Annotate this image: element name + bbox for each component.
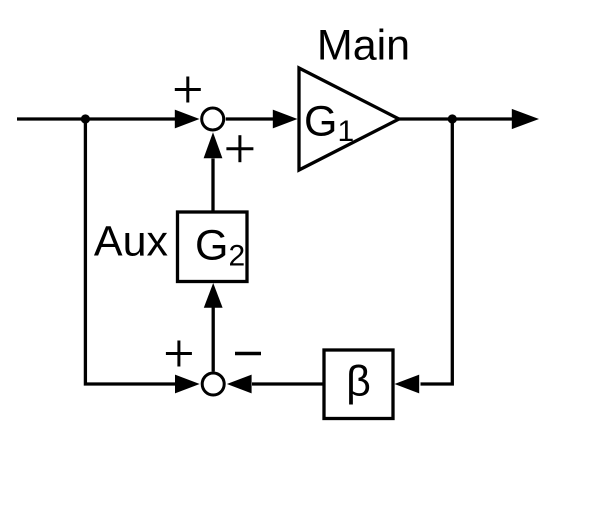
svg-text:Main: Main	[317, 22, 410, 70]
block beta (feedback network)	[324, 350, 393, 419]
wire: feedback tap down from output node to beta block	[421, 119, 453, 384]
node: input junction dot	[81, 114, 90, 123]
minus sign: feedback polarity at S2 (above-right)	[235, 352, 261, 355]
block G2 (auxiliary amplifier)	[178, 212, 248, 282]
arrowhead into S2 from left	[175, 375, 200, 394]
wire: input segment from left edge to summing junction S1	[17, 117, 177, 120]
wire: S2 up to auxiliary amplifier G2	[212, 308, 215, 372]
arrowhead at output	[512, 109, 539, 129]
wire: G2 output up to summing junction S1	[211, 159, 214, 213]
plus sign: input polarity at S2 (above-left)	[166, 341, 192, 367]
wire: left feed-forward path down to S2	[85, 119, 175, 384]
op-amp U1 (main amplifier G1 triangle)	[299, 68, 399, 170]
plus sign: G2 polarity at S1 (below-right)	[226, 135, 253, 162]
arrowhead into S1 from below	[204, 132, 223, 158]
summing junction S2	[202, 373, 224, 395]
plus sign: input polarity at S1 (above-left)	[175, 77, 201, 103]
arrowhead into summing junction S1 (from input)	[175, 110, 200, 129]
wire: G1 output to right edge	[399, 117, 513, 120]
arrowhead into G2 bottom	[204, 283, 223, 308]
svg-text:β: β	[346, 358, 371, 406]
node: output junction dot	[448, 114, 457, 123]
arrowhead into beta block	[395, 375, 420, 394]
arrowhead into S2 from beta (right side)	[227, 375, 252, 394]
arrowhead into amplifier G1	[273, 110, 298, 129]
summing junction S1	[202, 108, 224, 130]
wire: S1 to amplifier G1	[226, 117, 274, 120]
svg-text:Aux: Aux	[94, 218, 169, 266]
wire: beta to summing junction S2	[252, 382, 324, 385]
